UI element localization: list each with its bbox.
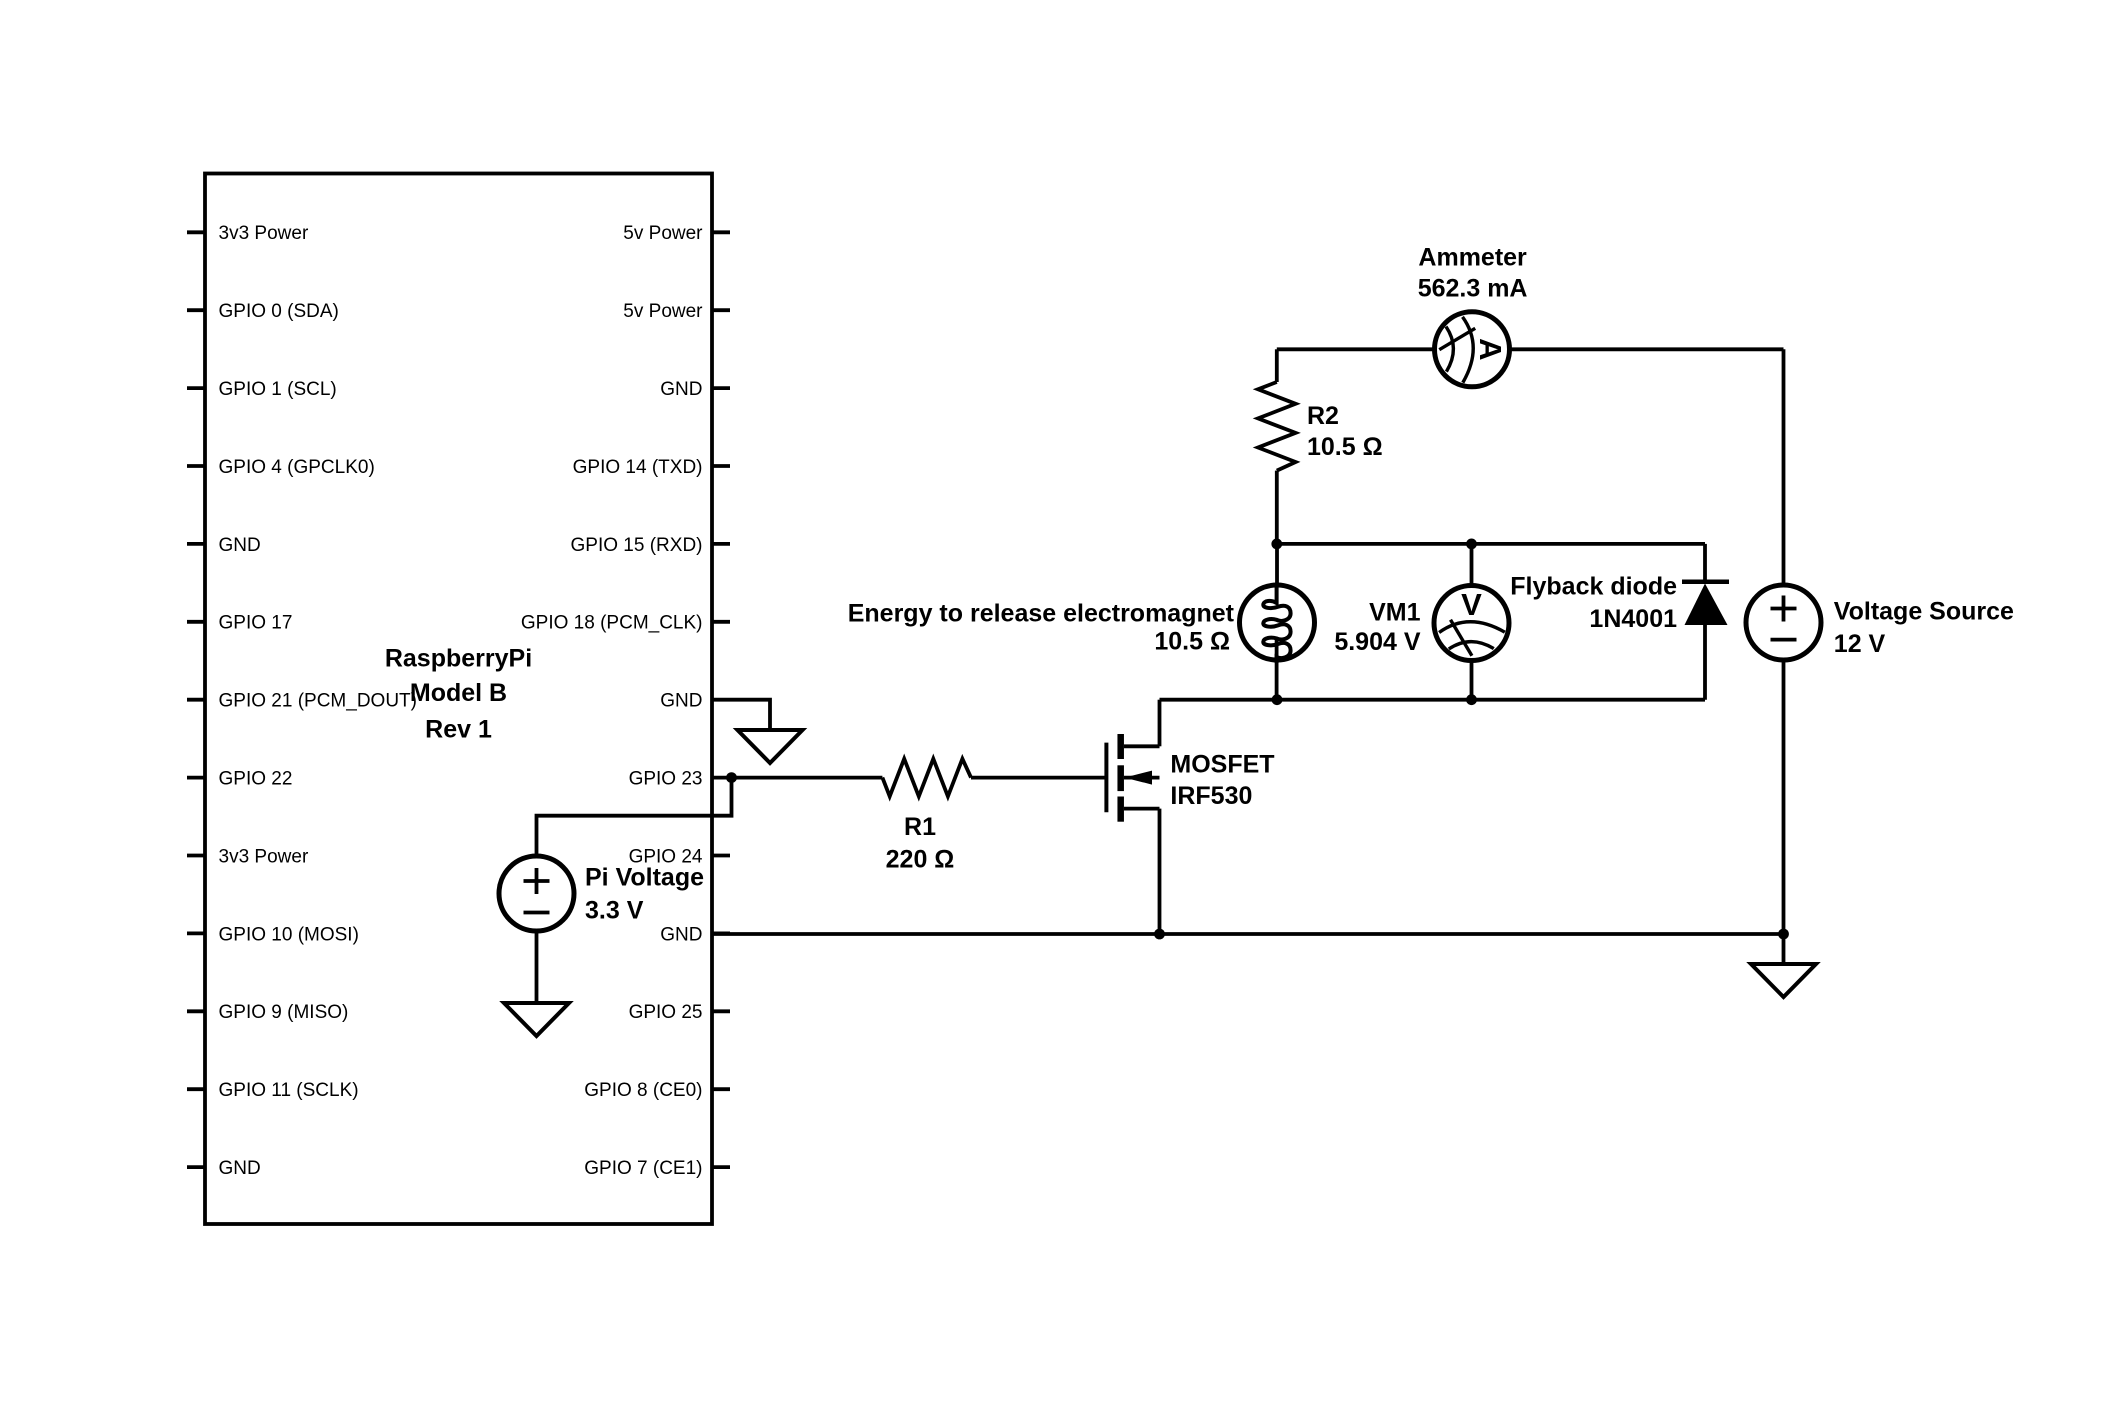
- svg-text:562.3 mA: 562.3 mA: [1418, 275, 1528, 303]
- node junction GPIO23: [726, 772, 737, 783]
- wire top bus right (ammeter to VS): [1510, 347, 1784, 351]
- svg-text:5.904 V: 5.904 V: [1334, 628, 1421, 656]
- svg-text:GPIO 8 (CE0): GPIO 8 (CE0): [584, 1080, 702, 1101]
- pin stub left 13 (GND): [187, 1165, 205, 1169]
- wire top bus left (R2 to ammeter): [1277, 347, 1435, 351]
- svg-text:GPIO 17: GPIO 17: [219, 613, 293, 634]
- minus sign V2: [524, 911, 550, 915]
- wire mid bus to coil: [1275, 544, 1279, 585]
- node junction MOSFET source: [1154, 929, 1165, 940]
- wire R2 to mid bus: [1275, 471, 1279, 544]
- raspberrypi U1 box: [205, 174, 712, 1225]
- pin stub right 3 (GND): [712, 386, 730, 390]
- resistor R1 220 ohm: [882, 759, 971, 797]
- wire GND pin to ground: [730, 700, 770, 730]
- pin stub right 10 (GND): [712, 932, 730, 936]
- svg-text:GPIO 4 (GPCLK0): GPIO 4 (GPCLK0): [219, 457, 375, 478]
- pin stub right 4 (GPIO 14 (TXD)): [712, 464, 730, 468]
- wire mid bus corner to diode: [1703, 544, 1707, 582]
- pin stub right 8 (GPIO 23): [712, 776, 730, 780]
- voltage source V1 12V circle: [1746, 585, 1821, 660]
- node junction coil bottom: [1272, 694, 1283, 705]
- pin stub left 9 (3v3 Power): [187, 854, 205, 858]
- svg-text:GND: GND: [660, 691, 702, 712]
- svg-text:GPIO 15 (RXD): GPIO 15 (RXD): [571, 535, 703, 556]
- wire bottom bus row6: [1160, 698, 1706, 702]
- svg-text:1N4001: 1N4001: [1589, 605, 1677, 633]
- svg-text:Ammeter: Ammeter: [1418, 244, 1527, 272]
- svg-text:R2: R2: [1307, 402, 1339, 430]
- minus sign V1: [1771, 638, 1797, 642]
- node junction R2/coil: [1271, 539, 1282, 550]
- body arrow Q1: [1125, 771, 1153, 785]
- voltmeter VM1 circle: [1434, 586, 1509, 661]
- svg-text:GPIO 21 (PCM_DOUT): GPIO 21 (PCM_DOUT): [219, 691, 417, 712]
- svg-text:GND: GND: [219, 1158, 261, 1179]
- plus sign V2: [524, 879, 550, 883]
- svg-text:GPIO 25: GPIO 25: [629, 1002, 703, 1023]
- resistor R2 10.5 ohm: [1258, 382, 1296, 471]
- svg-text:3v3 Power: 3v3 Power: [219, 846, 309, 867]
- pin stub right 7 (GND): [712, 698, 730, 702]
- svg-text:3v3 Power: 3v3 Power: [219, 223, 309, 244]
- wire mid bus row4: [1277, 542, 1705, 546]
- ground (pi GND pin): [738, 730, 803, 763]
- pin stub left 6 (GPIO 17): [187, 620, 205, 624]
- svg-text:5v Power: 5v Power: [623, 301, 703, 322]
- pin stub right 5 (GPIO 15 (RXD)): [712, 542, 730, 546]
- pin stub left 3 (GPIO 1 (SCL)): [187, 386, 205, 390]
- node junction VS bottom: [1778, 929, 1789, 940]
- svg-text:Energy to release electromagne: Energy to release electromagnet: [848, 600, 1235, 628]
- wire GPIO23 to Pi Voltage: [537, 778, 732, 855]
- svg-text:GPIO 11 (SCLK): GPIO 11 (SCLK): [219, 1080, 359, 1101]
- svg-text:12 V: 12 V: [1834, 630, 1886, 658]
- ground (main): [1751, 964, 1816, 997]
- svg-text:RaspberryPi: RaspberryPi: [385, 645, 532, 673]
- svg-text:GPIO 14 (TXD): GPIO 14 (TXD): [573, 457, 703, 478]
- svg-text:GPIO 9 (MISO): GPIO 9 (MISO): [219, 1002, 349, 1023]
- pin stub left 12 (GPIO 11 (SCLK)): [187, 1087, 205, 1091]
- pin stub left 5 (GND): [187, 542, 205, 546]
- pin stub right 13 (GPIO 7 (CE1)): [712, 1165, 730, 1169]
- pin stub left 8 (GPIO 22): [187, 776, 205, 780]
- svg-text:5v Power: 5v Power: [623, 223, 703, 244]
- svg-text:Voltage Source: Voltage Source: [1834, 598, 2014, 626]
- svg-text:GPIO 0 (SDA): GPIO 0 (SDA): [219, 301, 339, 322]
- pin stub left 7 (GPIO 21 (PCM_DOUT)): [187, 698, 205, 702]
- node junction VM1 top: [1466, 539, 1477, 550]
- voltage source V2 Pi Voltage 3.3V circle: [499, 856, 574, 931]
- svg-text:GND: GND: [660, 924, 702, 945]
- svg-text:GPIO 22: GPIO 22: [219, 769, 293, 790]
- pin stub left 2 (GPIO 0 (SDA)): [187, 308, 205, 312]
- pin stub right 2 (5v Power): [712, 308, 730, 312]
- wire gnd bus row9: [712, 932, 1784, 936]
- svg-text:A: A: [1473, 338, 1508, 360]
- svg-text:IRF530: IRF530: [1170, 782, 1252, 810]
- pin stub right 12 (GPIO 8 (CE0)): [712, 1087, 730, 1091]
- wire VM1 to bottom bus: [1470, 660, 1474, 700]
- svg-text:3.3 V: 3.3 V: [585, 897, 644, 925]
- svg-text:GPIO 18 (PCM_CLK): GPIO 18 (PCM_CLK): [521, 613, 703, 634]
- wire VS to gnd bus: [1782, 660, 1786, 934]
- svg-text:GND: GND: [660, 379, 702, 400]
- svg-text:GPIO 7 (CE1): GPIO 7 (CE1): [584, 1158, 702, 1179]
- wire diode to bottom bus: [1703, 625, 1707, 700]
- svg-text:GPIO 1 (SCL): GPIO 1 (SCL): [219, 379, 337, 400]
- wire top corner to R2: [1275, 349, 1279, 382]
- svg-text:GPIO 23: GPIO 23: [629, 769, 703, 790]
- pin stub right 9 (GPIO 24): [712, 854, 730, 858]
- pin stub right 6 (GPIO 18 (PCM_CLK)): [712, 620, 730, 624]
- pin stub left 11 (GPIO 9 (MISO)): [187, 1009, 205, 1013]
- wire top bus to VS: [1782, 349, 1786, 586]
- svg-text:Pi Voltage: Pi Voltage: [585, 864, 704, 892]
- svg-text:Rev 1: Rev 1: [425, 716, 492, 744]
- svg-text:Flyback diode: Flyback diode: [1510, 573, 1677, 601]
- wire VS gnd stub: [1782, 934, 1786, 964]
- diode D1 1N4001 cathode bar: [1682, 580, 1729, 585]
- wire mid bus to VM1: [1470, 544, 1474, 586]
- inductor L1 coil: [1263, 583, 1290, 663]
- plus sign V1: [1771, 607, 1797, 611]
- pin stub left 10 (GPIO 10 (MOSI)): [187, 932, 205, 936]
- transistor Q1 MOSFET IRF530: [1106, 700, 1159, 934]
- ground (below V2): [504, 1003, 569, 1036]
- node junction VM1 bottom: [1466, 694, 1477, 705]
- svg-text:V: V: [1461, 587, 1482, 622]
- wire R1 to MOSFET gate: [971, 776, 1106, 780]
- ammeter AM1 circle: [1435, 312, 1510, 387]
- wire V2 to ground: [535, 931, 539, 1003]
- svg-text:GND: GND: [219, 535, 261, 556]
- svg-text:GPIO 10 (MOSI): GPIO 10 (MOSI): [219, 924, 359, 945]
- svg-text:VM1: VM1: [1369, 598, 1421, 626]
- svg-text:220 Ω: 220 Ω: [886, 846, 955, 874]
- svg-text:10.5 Ω: 10.5 Ω: [1307, 433, 1383, 461]
- svg-text:MOSFET: MOSFET: [1170, 751, 1274, 779]
- pin stub left 1 (3v3 Power): [187, 230, 205, 234]
- wire coil to bottom bus: [1275, 638, 1279, 700]
- pin stub right 1 (5v Power): [712, 230, 730, 234]
- svg-text:10.5 Ω: 10.5 Ω: [1154, 628, 1230, 656]
- inductor L1 electromagnet circle: [1240, 585, 1315, 660]
- wire GPIO 23 to R1: [730, 776, 882, 780]
- pin stub right 11 (GPIO 25): [712, 1009, 730, 1013]
- ammeter AM1 gauge glyph: [1439, 317, 1508, 383]
- diode D1 triangle: [1685, 584, 1728, 626]
- svg-text:R1: R1: [904, 813, 936, 841]
- svg-text:Model B: Model B: [410, 679, 507, 707]
- pin stub left 4 (GPIO 4 (GPCLK0)): [187, 464, 205, 468]
